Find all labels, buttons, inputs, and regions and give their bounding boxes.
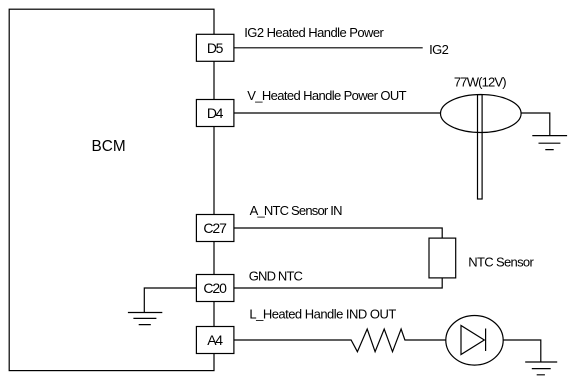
svg-text:77W(12V): 77W(12V) [454,75,507,90]
svg-text:D4: D4 [207,105,224,121]
svg-text:GND NTC: GND NTC [249,269,303,284]
svg-text:V_Heated Handle Power OUT: V_Heated Handle Power OUT [247,88,406,103]
svg-text:A_NTC Sensor IN: A_NTC Sensor IN [250,203,343,218]
svg-text:IG2: IG2 [429,42,449,57]
svg-text:C20: C20 [203,280,227,296]
svg-text:BCM: BCM [92,138,126,155]
svg-text:L_Heated Handle IND OUT: L_Heated Handle IND OUT [249,306,396,321]
svg-text:C27: C27 [203,220,227,236]
svg-text:A4: A4 [207,332,223,348]
svg-text:D5: D5 [207,40,224,56]
svg-text:NTC Sensor: NTC Sensor [468,255,534,270]
svg-text:IG2 Heated Handle Power: IG2 Heated Handle Power [244,25,384,40]
